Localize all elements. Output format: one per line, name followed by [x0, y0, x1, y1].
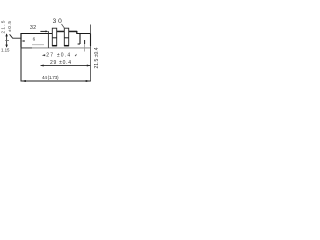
bottom dim line	[21, 80, 91, 82]
dim 6 arrow	[21, 40, 24, 42]
part bottom edge	[21, 47, 91, 49]
right edge / extension x90.5	[90, 25, 92, 34]
svg-text:21.5 ±0.4: 21.5 ±0.4	[94, 47, 100, 68]
deck left-face arrow	[40, 30, 46, 32]
svg-text:29 ±0.4: 29 ±0.4	[50, 60, 71, 66]
svg-text:32: 32	[30, 25, 36, 31]
tab 1	[52, 28, 56, 46]
left leader to edge	[10, 34, 21, 38]
tick on left dim	[5, 40, 9, 42]
small vertical x84.6	[84, 40, 86, 44]
svg-text:30: 30	[53, 18, 63, 25]
part top edge	[21, 33, 91, 35]
svg-text:44 (1.73): 44 (1.73)	[42, 75, 59, 80]
dim row1 tick	[75, 54, 77, 57]
svg-text:27 ±0.4: 27 ±0.4	[46, 52, 70, 58]
internal edge x48	[47, 31, 49, 48]
left extension x21	[20, 48, 22, 82]
right step	[78, 34, 80, 45]
tab 2	[64, 28, 68, 46]
dimension band y31	[57, 31, 77, 33]
left vertical dimension line	[6, 34, 8, 47]
svg-text:±0.5: ±0.5	[7, 21, 12, 32]
hidden line	[32, 44, 44, 46]
dim row1 arrow	[42, 54, 45, 56]
svg-text:6: 6	[33, 36, 36, 41]
leader from 30	[62, 24, 65, 28]
deck right step	[76, 31, 78, 34]
svg-text:1.15: 1.15	[1, 48, 10, 53]
part left edge	[20, 33, 22, 48]
dim row2 line	[41, 65, 91, 67]
svg-text:21.5: 21.5	[1, 20, 6, 33]
